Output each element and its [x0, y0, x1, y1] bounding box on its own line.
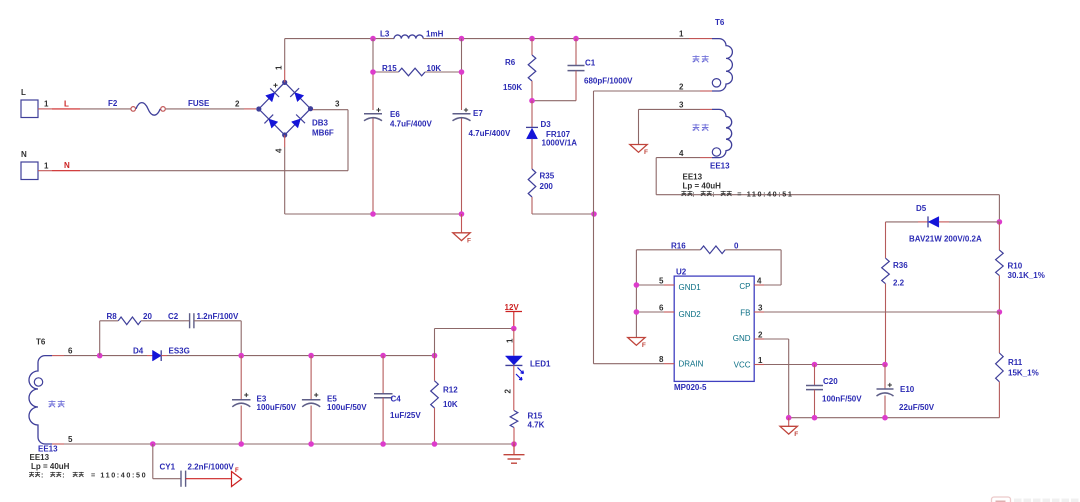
- svg-text:10K: 10K: [427, 64, 442, 73]
- node: [529, 36, 535, 42]
- node: [370, 36, 376, 42]
- svg-text:VCC: VCC: [734, 360, 751, 369]
- resistor R15 (output): [510, 411, 518, 428]
- capacitor E5: [310, 356, 312, 400]
- svg-text:4.7K: 4.7K: [528, 421, 545, 430]
- capacitor C20: [814, 365, 816, 386]
- svg-text:E10: E10: [900, 385, 915, 394]
- svg-text:T6: T6: [715, 18, 725, 27]
- wire to net F: [186, 478, 232, 480]
- svg-text:30.1K_1%: 30.1K_1%: [1008, 271, 1045, 280]
- wire: [461, 39, 463, 72]
- resistor R12: [434, 356, 436, 381]
- wire: [594, 90, 701, 92]
- svg-text:1: 1: [679, 30, 684, 39]
- node: [573, 36, 579, 42]
- svg-text:R15: R15: [528, 411, 543, 420]
- wire: [285, 213, 462, 215]
- label primary: [692, 55, 699, 62]
- resistor R15: [373, 71, 399, 73]
- wire: [593, 214, 595, 364]
- svg-text:N: N: [21, 150, 27, 159]
- node: [432, 441, 438, 447]
- pin 1 of P2: [38, 170, 52, 172]
- svg-text:FB: FB: [740, 308, 750, 317]
- node: [511, 326, 517, 332]
- text winding ratio: [29, 472, 34, 477]
- pin 2 of T6: [700, 90, 712, 92]
- pin 3 of T6: [700, 108, 712, 110]
- node: [812, 362, 818, 368]
- connector P2 (N input): [21, 162, 38, 180]
- svg-text:1uF/25V: 1uF/25V: [390, 411, 421, 420]
- node: [150, 441, 156, 447]
- svg-text:1: 1: [44, 100, 49, 109]
- wire: [789, 417, 1000, 419]
- svg-text:200: 200: [540, 182, 554, 191]
- svg-text:EE13: EE13: [683, 172, 703, 181]
- ground F: [788, 418, 790, 427]
- svg-text:C2: C2: [168, 312, 179, 321]
- pin 6 of T6: [52, 355, 64, 357]
- wire: [64, 443, 514, 445]
- pin 5 of T6: [52, 443, 64, 445]
- svg-text:1.2nF/100V: 1.2nF/100V: [197, 312, 239, 321]
- pin 1 of U2: [754, 364, 764, 366]
- svg-text:MB6F: MB6F: [312, 128, 334, 137]
- node: [529, 98, 535, 104]
- resistor R6: [531, 39, 533, 55]
- node: [370, 69, 376, 75]
- node: [634, 309, 640, 315]
- svg-text:3: 3: [679, 100, 684, 109]
- wire: [884, 396, 886, 418]
- svg-text:100uF/50V: 100uF/50V: [257, 403, 297, 412]
- pin 4 of DB3: [284, 135, 286, 147]
- wire: [372, 39, 374, 72]
- svg-text:F: F: [642, 342, 646, 349]
- pin 4 of T6: [700, 157, 712, 159]
- wire: [639, 108, 701, 110]
- node: [238, 353, 244, 359]
- node: [308, 353, 314, 359]
- svg-text:100nF/50V: 100nF/50V: [822, 394, 862, 403]
- svg-text:2: 2: [504, 389, 513, 394]
- pin 3 of DB3: [311, 109, 314, 111]
- svg-text:D5: D5: [916, 204, 927, 213]
- wire: [240, 321, 242, 356]
- wire: [80, 170, 348, 172]
- svg-text:2.2: 2.2: [893, 279, 905, 288]
- svg-text::: :: [692, 191, 694, 198]
- fuse F2: [131, 107, 136, 112]
- svg-text:2: 2: [235, 100, 240, 109]
- svg-text:R16: R16: [671, 241, 686, 250]
- svg-text:1: 1: [275, 65, 284, 70]
- capacitor C4: [382, 356, 384, 394]
- inductor L3: [394, 35, 423, 39]
- node: [459, 211, 465, 217]
- wire: [284, 147, 286, 214]
- svg-text:4: 4: [757, 276, 762, 285]
- node: [380, 353, 386, 359]
- diode D5: [886, 221, 919, 223]
- capacitor E7: [453, 113, 471, 115]
- diode D3: [531, 101, 533, 128]
- node: [308, 441, 314, 447]
- wire: [80, 108, 131, 110]
- resistor R10: [998, 222, 1000, 250]
- svg-text:5: 5: [68, 435, 73, 444]
- node: [882, 362, 888, 368]
- pin 4 of U2: [780, 250, 782, 285]
- svg-text:E6: E6: [390, 110, 400, 119]
- ground F: [630, 145, 647, 153]
- transformer T6 feedback winding: [712, 109, 732, 157]
- wire: [635, 250, 637, 338]
- svg-text:GND2: GND2: [679, 310, 702, 319]
- svg-text:R8: R8: [107, 312, 118, 321]
- wire: [99, 321, 101, 356]
- svg-text:Lp = 40uH: Lp = 40uH: [683, 182, 722, 191]
- node: [459, 69, 465, 75]
- wire: [64, 355, 147, 357]
- svg-text::: :: [41, 472, 43, 479]
- bridge rectifier DB3: [259, 82, 311, 135]
- svg-text:R12: R12: [443, 386, 458, 395]
- svg-text:MP020-5: MP020-5: [674, 383, 707, 392]
- svg-text:F: F: [644, 149, 648, 156]
- pin 2 of DB3: [244, 108, 256, 110]
- pin 2 of LED1: [513, 365, 515, 410]
- offpage connector F: [232, 472, 242, 487]
- pin 3 of U2: [754, 311, 764, 313]
- svg-text:Lp = 40uH: Lp = 40uH: [31, 462, 70, 471]
- svg-text:L3: L3: [380, 30, 390, 39]
- svg-text:EE13: EE13: [30, 453, 50, 462]
- label feedback: [692, 124, 699, 131]
- capacitor CY1: [152, 444, 154, 479]
- svg-text::: :: [712, 191, 714, 198]
- svg-text:150K: 150K: [503, 83, 522, 92]
- svg-text:F: F: [235, 468, 239, 474]
- node: [459, 36, 465, 42]
- svg-text:ES3G: ES3G: [169, 346, 190, 355]
- node: [380, 441, 386, 447]
- node: [591, 211, 597, 217]
- svg-text:4: 4: [679, 149, 684, 158]
- svg-text:U2: U2: [676, 267, 687, 276]
- svg-text:GND1: GND1: [679, 283, 702, 292]
- svg-text:DB3: DB3: [312, 118, 329, 127]
- svg-text:D4: D4: [133, 346, 144, 355]
- svg-text:D3: D3: [541, 120, 552, 129]
- svg-text:1: 1: [44, 161, 49, 170]
- wire: [285, 38, 394, 40]
- svg-text:CP: CP: [739, 282, 750, 291]
- svg-text:C4: C4: [391, 394, 402, 403]
- node: [634, 282, 640, 288]
- svg-text:BAV21W 200V/0.2A: BAV21W 200V/0.2A: [909, 235, 982, 244]
- wire: [532, 100, 576, 102]
- svg-text:R11: R11: [1008, 358, 1023, 367]
- pin 8 of U2: [594, 363, 665, 365]
- svg-text:F2: F2: [108, 99, 118, 108]
- label secondary: [48, 400, 55, 407]
- svg-text:4.7uF/400V: 4.7uF/400V: [469, 129, 511, 138]
- svg-text:C1: C1: [585, 59, 596, 68]
- svg-text:4.7uF/400V: 4.7uF/400V: [390, 119, 432, 128]
- ground F: [628, 338, 645, 346]
- watermark: [992, 497, 1011, 502]
- svg-text:20: 20: [143, 312, 152, 321]
- svg-text:22uF/50V: 22uF/50V: [899, 403, 935, 412]
- LED LED1: [505, 356, 522, 365]
- svg-text:1: 1: [758, 356, 763, 365]
- net label L: [52, 108, 80, 110]
- node: [997, 219, 1003, 225]
- net label N: [52, 170, 80, 172]
- svg-text:GND: GND: [733, 334, 751, 343]
- svg-text:F: F: [467, 237, 471, 244]
- svg-text:680pF/1000V: 680pF/1000V: [584, 76, 633, 85]
- svg-text:1000V/1A: 1000V/1A: [542, 138, 578, 147]
- svg-text:R6: R6: [505, 58, 516, 67]
- node: [812, 415, 818, 421]
- svg-text:= 110:40:50: = 110:40:50: [91, 470, 147, 479]
- svg-text:1mH: 1mH: [426, 30, 444, 39]
- svg-text:R35: R35: [540, 172, 555, 181]
- ground (earth): [513, 444, 515, 455]
- connector P1 (L input): [21, 100, 38, 118]
- svg-text:C20: C20: [823, 377, 838, 386]
- wire: [532, 213, 594, 215]
- svg-text:0: 0: [734, 241, 739, 250]
- svg-text:3: 3: [758, 303, 763, 312]
- svg-text:100uF/50V: 100uF/50V: [327, 403, 367, 412]
- svg-text:8: 8: [659, 355, 664, 364]
- node: [432, 353, 438, 359]
- svg-text:F: F: [794, 431, 798, 438]
- capacitor E10: [884, 365, 886, 390]
- svg-text:E7: E7: [473, 109, 483, 118]
- svg-text:LED1: LED1: [530, 359, 551, 368]
- svg-text:4: 4: [275, 148, 284, 153]
- node: [370, 211, 376, 217]
- svg-text:5: 5: [659, 276, 664, 285]
- node: [786, 415, 792, 421]
- text winding ratio: [681, 191, 686, 196]
- wire: [284, 39, 286, 70]
- node: [238, 441, 244, 447]
- svg-text:R10: R10: [1008, 262, 1023, 271]
- node: [997, 309, 1003, 315]
- svg-text:2: 2: [758, 330, 763, 339]
- pin 2 of U2: [754, 338, 764, 340]
- svg-text:L: L: [64, 99, 69, 108]
- svg-text:6: 6: [68, 346, 73, 355]
- svg-text::: :: [62, 472, 64, 479]
- svg-text:12V: 12V: [505, 303, 520, 312]
- resistor R8: [100, 320, 119, 322]
- capacitor E3: [240, 356, 242, 400]
- transformer T6 primary winding: [712, 39, 732, 91]
- resistor R16: [636, 249, 700, 251]
- transformer T6 secondary winding: [29, 356, 52, 444]
- node: [97, 353, 103, 359]
- ground F: [461, 214, 463, 233]
- resistor R35: [531, 139, 533, 169]
- node: [882, 415, 888, 421]
- svg-text:R36: R36: [893, 261, 908, 270]
- pin 1 of DB3: [284, 70, 286, 82]
- svg-text:L: L: [21, 88, 26, 97]
- svg-text:N: N: [64, 161, 70, 170]
- wire: [656, 157, 700, 159]
- svg-text:T6: T6: [36, 338, 46, 347]
- svg-text:CY1: CY1: [160, 463, 176, 472]
- pin 5 of U2: [636, 284, 664, 286]
- wire: [423, 38, 689, 40]
- wire: [435, 328, 514, 330]
- pin 6 of U2: [636, 311, 664, 313]
- capacitor C1: [575, 39, 577, 66]
- svg-text:EE13: EE13: [710, 162, 730, 171]
- capacitor C2: [189, 313, 191, 328]
- pin 1 of T6: [689, 38, 712, 40]
- capacitor E6: [364, 113, 382, 115]
- wire: [166, 108, 244, 110]
- resistor R11: [998, 312, 1000, 353]
- resistor R36: [885, 222, 887, 258]
- svg-text:DRAIN: DRAIN: [679, 360, 704, 369]
- svg-text:10K: 10K: [443, 400, 458, 409]
- svg-text:6: 6: [659, 303, 664, 312]
- svg-text:1: 1: [506, 338, 515, 343]
- pin 1 of LED1: [513, 329, 515, 356]
- svg-text:2: 2: [679, 82, 684, 91]
- svg-text:= 110:40:51: = 110:40:51: [737, 189, 793, 198]
- node: [511, 441, 517, 447]
- svg-text:FUSE: FUSE: [188, 99, 210, 108]
- svg-text:R15: R15: [382, 64, 397, 73]
- svg-text:15K_1%: 15K_1%: [1008, 368, 1039, 377]
- svg-text:3: 3: [335, 100, 340, 109]
- diode D4: [147, 355, 153, 357]
- pin 1 of P1: [38, 108, 52, 110]
- svg-text:2.2nF/1000V: 2.2nF/1000V: [188, 463, 235, 472]
- op-amp U2 (MP020-5): [674, 276, 754, 381]
